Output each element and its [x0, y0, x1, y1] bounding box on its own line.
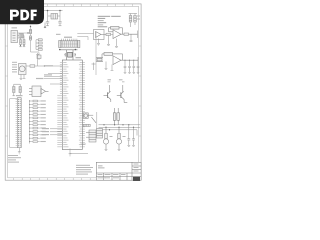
power arrow VCC: [36, 54, 38, 59]
PDF badge letter F: [31, 10, 37, 21]
signal arrows U1 bottom left: [50, 129, 62, 135]
wire vertical left bus: [95, 32, 97, 76]
notes text block bottom: [76, 165, 93, 175]
transistor labels bottom right: [110, 136, 113, 137]
junction dots Y2: [59, 49, 76, 51]
capacitor C2: [46, 22, 49, 26]
transistor Q5: [116, 127, 121, 149]
resistor ladder R10-R22: [29, 100, 46, 142]
resistor R23 above Q4: [105, 134, 108, 139]
wire ground stub left of crystal: [44, 23, 46, 28]
right border zone tick marks: [139, 46, 142, 136]
ground row bottom right: [105, 145, 135, 150]
wire P1 left bus: [10, 99, 20, 152]
junction dot ground stub: [44, 26, 45, 27]
notes text block top middle: [98, 16, 121, 28]
transistor Q3: [117, 79, 128, 102]
connector J1 power input: [11, 31, 18, 43]
capacitor C10: [132, 127, 135, 145]
crystal Y1 top circuit: [44, 11, 63, 22]
U1 pin number text right column: [79, 62, 82, 147]
sheet inner border frame: [8, 6, 139, 177]
junction dots crystal: [47, 10, 61, 12]
wire riser right end of bus: [136, 130, 138, 136]
PDF badge letter P: [10, 10, 19, 21]
sheet outer border frame: [5, 4, 141, 180]
resistor R4: [106, 33, 113, 35]
power flag VCC right of U1: [92, 63, 96, 71]
connector J1 label: [12, 27, 18, 28]
capacitor C11 below J4: [37, 53, 41, 61]
transistor Q4: [103, 127, 108, 149]
ground P1: [18, 152, 21, 154]
resistor R2 R3 pair top right: [129, 14, 138, 28]
wire below badge vertical chain: [30, 26, 32, 53]
wire ladder bus: [29, 100, 31, 144]
op-amp U2B with feedback: [109, 27, 138, 39]
resistor R6: [30, 65, 35, 67]
resistor R24 above Q5: [118, 134, 121, 139]
PDF badge letter D: [20, 10, 29, 21]
signal arrow labels: [42, 128, 49, 135]
op-amp U2A input wires: [77, 34, 93, 41]
bottom border zone tick marks: [14, 178, 91, 180]
wire chain to J4 bottom: [31, 51, 40, 53]
junction dot buzzer wire: [44, 65, 45, 66]
capacitor C5 C6 C7 C8 row2: [124, 57, 140, 72]
left border zone tick marks: [5, 46, 8, 136]
ground buzzer: [20, 75, 26, 80]
wire J1 outputs: [18, 33, 31, 38]
microcontroller U1: [62, 57, 82, 150]
transistor Q2: [104, 79, 112, 102]
junction dot chain top: [30, 26, 31, 27]
U1 right pin stubs: [82, 63, 85, 147]
top border zone tick marks: [14, 4, 133, 7]
wire U1 left long signals: [44, 66, 62, 84]
resistor network RP1: [56, 34, 80, 48]
connector J4 4-pin: [36, 39, 42, 51]
title block text: [98, 164, 139, 179]
U1 pin name text left column: [63, 62, 68, 147]
connector P1 long left: [16, 95, 23, 148]
resistor R25 below optocoupler: [83, 124, 90, 126]
capacitor C1: [19, 36, 25, 47]
connector J2 right of U1: [86, 130, 96, 142]
logic gate U3: [29, 86, 49, 97]
capacitor C3: [58, 22, 61, 26]
ground symbols row2: [105, 62, 140, 74]
op-amp U2C row2 with feedback: [96, 53, 138, 65]
resistor R9a on chain: [29, 30, 31, 34]
signal labels left of U1: [36, 65, 53, 79]
logo cell dark: [133, 177, 140, 181]
connector J3 bottom left of bus: [97, 129, 103, 139]
op-amp U2A: [94, 30, 107, 40]
wire buzzer to resistor: [26, 58, 45, 66]
buzzer LS1: [12, 62, 26, 75]
bus lines bottom right: [99, 125, 141, 130]
resistor R9b on chain: [29, 36, 31, 40]
ground symbols op-amp row1: [97, 35, 118, 47]
junction dots bus: [103, 124, 134, 130]
crystal Y2 above U1: [60, 50, 78, 60]
relay K1: [113, 108, 119, 125]
resistor R5: [124, 33, 129, 35]
node VCC dot: [27, 32, 28, 33]
capacitor C4 output: [130, 31, 138, 42]
optocoupler U4 right of U1: [83, 113, 96, 123]
resistor R1: [19, 34, 24, 38]
U1 left pin stubs: [57, 63, 62, 147]
PDF badge: [0, 0, 44, 24]
resistor R7 R8 pair: [12, 84, 21, 96]
title block: [96, 162, 141, 180]
wire vertical to bus left: [96, 112, 98, 129]
capacitor C9: [127, 125, 130, 145]
wire U1 bottom: [70, 144, 88, 154]
ground U1 bottom: [69, 154, 72, 156]
legend text bottom left: [8, 155, 21, 163]
